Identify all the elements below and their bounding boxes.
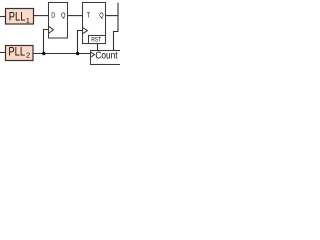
wire PLL2 input — [0, 52, 6, 54]
PLL2 box — [6, 46, 34, 61]
svg-text:Q: Q — [61, 10, 66, 19]
RST box inside T flip-flop — [89, 36, 106, 44]
wire PLL1 input — [0, 16, 6, 18]
PLL1 box — [6, 9, 34, 26]
svg-text:PLL: PLL — [8, 46, 25, 59]
svg-text:D: D — [51, 10, 55, 19]
wire D-FF Q to T-FF T — [68, 15, 83, 17]
svg-text:PLL: PLL — [9, 11, 26, 24]
junction A — [42, 52, 45, 55]
D flip-flop U1 — [49, 3, 68, 39]
svg-text:Q: Q — [99, 10, 104, 19]
wire RST to Count — [97, 44, 99, 51]
svg-text:T: T — [87, 10, 91, 19]
wire vertical bus at right edge — [114, 3, 119, 51]
clock triangle T flip-flop — [83, 27, 88, 33]
svg-text:Count: Count — [95, 51, 117, 62]
junction B — [76, 52, 79, 55]
T flip-flop U2 — [83, 3, 106, 44]
svg-text:RST: RST — [91, 37, 101, 44]
Count block — [91, 51, 125, 65]
wire D-FF clock from junction A — [44, 30, 49, 54]
wire T-FF clock from junction B — [78, 31, 83, 54]
clock triangle Count — [91, 52, 95, 57]
svg-text:2: 2 — [26, 51, 30, 60]
clock triangle D flip-flop — [49, 26, 54, 33]
wire T-FF Q output to Count top — [106, 15, 119, 17]
wire PLL1 to D flip-flop — [34, 15, 49, 17]
wire PLL2 to Count (main clock net) — [33, 53, 91, 55]
svg-text:1: 1 — [26, 18, 30, 25]
